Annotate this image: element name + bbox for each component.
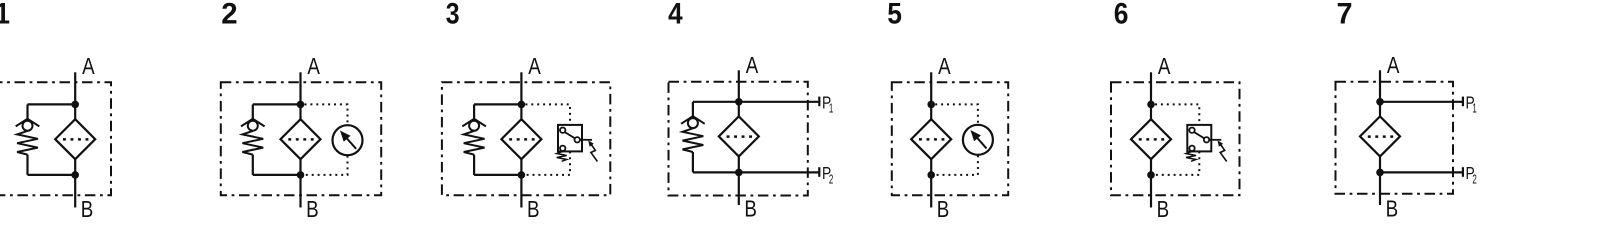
node: top junction section 3: [518, 101, 526, 109]
label port B section 7: [1386, 196, 1399, 223]
wire: port A line section 7: [1379, 70, 1381, 102]
label P2 section 7: [1466, 165, 1475, 184]
label port A section 1: [82, 53, 95, 80]
wire: junction to filter top section 6: [1150, 104, 1152, 119]
wire: filter bottom to junction section 6: [1150, 159, 1152, 175]
label P1 section 4: [822, 94, 831, 113]
node: top junction section 7: [1376, 98, 1384, 106]
wire: port B line section 5: [930, 175, 932, 208]
wire: bypass bottom branch section 1: [28, 174, 76, 176]
svg-text:A: A: [307, 53, 320, 80]
label variant number 5: [887, 0, 902, 30]
svg-text:A: A: [82, 53, 95, 80]
svg-text:7: 7: [1337, 0, 1353, 31]
node: bottom junction section 7: [1376, 169, 1384, 177]
svg-text:5: 5: [887, 0, 902, 30]
svg-text:B: B: [81, 196, 94, 223]
wire: bypass top branch section 3: [474, 103, 521, 105]
check valve CV4 (bypass: seat, ball, spring): [681, 102, 705, 173]
label variant number 7: [1337, 0, 1353, 31]
label P2 section 4: [822, 165, 831, 184]
label port B section 4: [744, 196, 757, 223]
svg-text:B: B: [1157, 196, 1170, 223]
wire: measuring port P1 line section 4: [739, 101, 821, 103]
node: bottom junction section 2: [297, 171, 305, 179]
node: top junction section 6: [1147, 101, 1155, 109]
svg-text:3: 3: [446, 0, 460, 30]
node: bottom junction section 3: [518, 171, 526, 179]
wire: measuring port P2 line section 4: [739, 171, 821, 173]
node: bottom junction section 5: [927, 171, 935, 179]
electrical actuation arrow (lightning) of S6: [1218, 140, 1227, 161]
spring of pressure switch S3: [557, 151, 567, 161]
svg-text:A: A: [1387, 52, 1400, 79]
wire: port A line section 2: [299, 72, 301, 104]
electrical actuation arrow (lightning) of S3: [588, 140, 597, 161]
label port A section 4: [746, 52, 759, 79]
filter element F3 (diamond with dotted mesh): [501, 119, 541, 159]
wire: junction to filter top section 2: [299, 104, 301, 119]
svg-text:B: B: [306, 196, 319, 223]
port tick P2 section 7: [1462, 167, 1464, 177]
label port B section 3: [527, 196, 540, 223]
spring of pressure switch S6: [1186, 151, 1196, 161]
node: top junction section 5: [927, 101, 935, 109]
clogging indicator gauge G2 (circle with arrow): [333, 125, 363, 155]
wire: filter bottom to junction section 5: [930, 159, 932, 175]
wire: pilot line (dotted) junction A to gauge section 5: [935, 104, 978, 124]
wire: pilot line (dotted) gauge to junction B section 2: [305, 156, 348, 175]
label variant number 3: [446, 0, 460, 30]
wire: measuring port P2 line section 7: [1380, 171, 1464, 173]
wire: port A line section 5: [930, 72, 932, 104]
node: top junction section 4: [735, 98, 743, 106]
check valve CV2 (bypass: seat, ball, spring): [241, 104, 265, 174]
label P1 section 7: [1466, 94, 1475, 113]
enclosure (dash-dot assembly boundary) section 4: [669, 82, 808, 196]
svg-text:B: B: [527, 196, 540, 223]
svg-text:B: B: [937, 196, 950, 223]
label port B section 6: [1157, 196, 1170, 223]
wire: junction to filter top section 4: [738, 102, 740, 117]
label port B section 2: [306, 196, 319, 223]
label port A section 7: [1387, 52, 1400, 79]
filter element F6 (diamond with dotted mesh): [1131, 119, 1171, 159]
enclosure (dash-dot assembly boundary) section 3: [442, 82, 610, 195]
wire: port B line section 7: [1379, 172, 1381, 205]
node: bottom junction section 1: [71, 171, 79, 179]
wire: bypass bottom branch section 3: [474, 174, 521, 176]
svg-text:1: 1: [829, 102, 833, 116]
wire: pilot line (dotted) pressure switch to junction B section 3: [525, 151, 570, 175]
label port A section 3: [528, 53, 541, 80]
label port B section 1: [81, 196, 94, 223]
label variant number 2: [221, 0, 237, 31]
wire: bypass top branch section 2: [253, 103, 301, 105]
node: top junction section 1: [71, 101, 79, 109]
svg-text:B: B: [1386, 196, 1399, 223]
wire: filter bottom to junction section 2: [299, 159, 301, 175]
node: bottom junction section 4: [735, 169, 743, 177]
wire: filter bottom to junction section 3: [520, 159, 522, 175]
svg-text:2: 2: [829, 172, 833, 186]
svg-text:2: 2: [221, 0, 237, 31]
wire: port B line section 4: [738, 172, 740, 205]
pressure switch S3 (box with contacts): [558, 125, 592, 151]
label variant number 4: [668, 0, 683, 30]
enclosure (dash-dot assembly boundary) section 1: [0, 82, 111, 195]
wire: junction to filter top section 5: [930, 104, 932, 119]
label port A section 5: [938, 53, 951, 80]
wire: port B line section 2: [299, 175, 301, 208]
svg-text:4: 4: [668, 0, 683, 30]
wire: pilot line (dotted) gauge to junction B section 5: [935, 155, 978, 175]
svg-text:6: 6: [1114, 0, 1129, 30]
wire: port A line section 6: [1150, 72, 1152, 104]
node: top junction section 2: [297, 101, 305, 109]
svg-text:B: B: [744, 196, 757, 223]
filter element F1 (diamond with dotted mesh): [55, 119, 95, 159]
pressure switch S6 (box with contacts): [1187, 125, 1221, 151]
svg-text:2: 2: [1472, 172, 1476, 186]
enclosure (dash-dot assembly boundary) section 5: [892, 82, 1008, 195]
wire: junction to filter top section 1: [74, 104, 76, 119]
wire: port B line section 6: [1150, 175, 1152, 208]
port tick P2 section 4: [818, 167, 820, 177]
label port A section 2: [307, 53, 320, 80]
port tick P1 section 7: [1462, 97, 1464, 107]
wire: pilot line (dotted) junction A to gauge section 2: [305, 104, 348, 124]
wire: bypass bottom branch section 4: [693, 171, 739, 173]
node: bottom junction section 6: [1147, 171, 1155, 179]
filter element F2 (diamond with dotted mesh): [281, 119, 321, 159]
wire: bypass bottom branch section 2: [253, 174, 301, 176]
enclosure (dash-dot assembly boundary) section 6: [1111, 82, 1240, 195]
label port B section 5: [937, 196, 950, 223]
check valve CV1 (bypass: seat, ball, spring): [16, 104, 40, 174]
svg-text:A: A: [938, 53, 951, 80]
label port A section 6: [1158, 53, 1171, 80]
wire: filter bottom to junction section 1: [74, 159, 76, 175]
wire: filter bottom to junction section 7: [1379, 156, 1381, 172]
enclosure (dash-dot assembly boundary) section 7: [1336, 82, 1454, 194]
svg-text:A: A: [528, 53, 541, 80]
wire: port B line section 1: [74, 175, 76, 208]
wire: pilot line (dotted) junction A to pressure switch section 6: [1155, 104, 1199, 125]
wire: junction to filter top section 7: [1379, 102, 1381, 117]
filter element F7 (diamond with dotted mesh): [1360, 116, 1400, 156]
wire: junction to filter top section 3: [520, 104, 522, 119]
wire: pilot line (dotted) pressure switch to junction B section 6: [1155, 151, 1199, 175]
wire: filter bottom to junction section 4: [738, 156, 740, 172]
svg-text:A: A: [1158, 53, 1171, 80]
wire: pilot line (dotted) junction A to pressure switch section 3: [525, 104, 570, 125]
wire: port A line section 4: [738, 70, 740, 102]
port tick P1 section 4: [818, 97, 820, 107]
enclosure (dash-dot assembly boundary) section 2: [221, 82, 381, 195]
wire: port B line section 3: [520, 175, 522, 208]
wire: measuring port P1 line section 7: [1380, 101, 1464, 103]
label variant number 6: [1114, 0, 1129, 30]
filter element F4 (diamond with dotted mesh): [719, 116, 759, 156]
wire: port A line section 1: [74, 72, 76, 104]
wire: bypass top branch section 1: [28, 103, 76, 105]
label variant number 1: [0, 0, 10, 31]
clogging indicator gauge G5 (circle with arrow): [963, 125, 993, 155]
wire: port A line section 3: [520, 72, 522, 104]
svg-text:A: A: [746, 52, 759, 79]
check valve CV3 (bypass: seat, ball, spring): [462, 104, 486, 174]
wire: bypass top branch section 4: [693, 101, 739, 103]
svg-text:1: 1: [0, 0, 10, 31]
filter element F5 (diamond with dotted mesh): [911, 119, 951, 159]
svg-text:1: 1: [1472, 102, 1476, 116]
